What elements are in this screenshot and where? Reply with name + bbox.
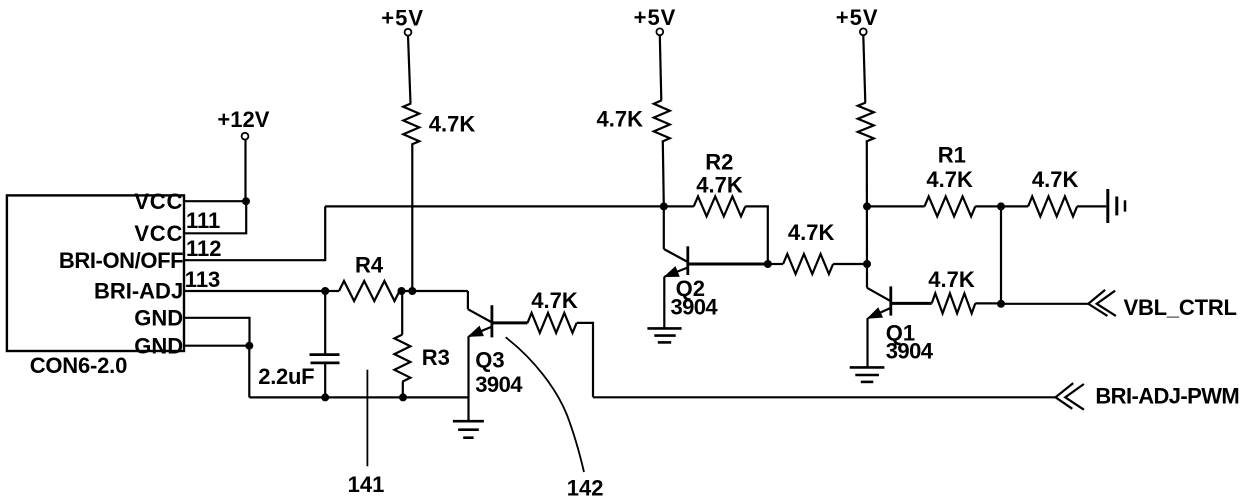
ground Q3 bar1	[453, 420, 484, 423]
wire +5V col1 upper	[408, 36, 411, 104]
wire GND drop	[248, 346, 250, 398]
resistor 4.7K Q1-base lead right	[975, 302, 1001, 304]
resistor 4.7K mid lead right	[833, 263, 867, 265]
node R1 right junction	[997, 202, 1005, 210]
resistor R1 lead right	[975, 205, 1001, 207]
resistor 4.7K mid lead left	[768, 263, 783, 265]
transistor Q2 emitter diagonal	[665, 268, 688, 277]
resistor 4.7K mid zigzag	[783, 254, 833, 274]
node +5V column1 junction	[408, 287, 416, 295]
wire VCC pin1 stub	[184, 200, 246, 202]
resistor 4.7K top-right lead left	[1001, 205, 1028, 207]
transistor Q2 base lead	[688, 263, 768, 266]
wire BRI-ADJ stub	[184, 290, 325, 292]
resistor 4.7K col3 zigzag	[858, 103, 874, 142]
transistor Q2 collector riser	[663, 206, 665, 249]
ground Q3 bar3	[463, 436, 473, 439]
ground Q1 bar3	[861, 381, 874, 384]
svg-text:4.7K: 4.7K	[531, 288, 578, 313]
wire Q3-base resistor to PWM corner	[577, 323, 593, 397]
capacitor 2.2uF top plate	[310, 353, 340, 356]
ground Q2 bar2	[654, 334, 675, 337]
resistor R2 lead left	[664, 205, 694, 207]
output arrow VBL_CTRL chevron1	[1088, 290, 1107, 316]
capacitor 2.2uF bottom plate	[311, 361, 340, 364]
resistor 4.7K col1 zigzag	[403, 103, 419, 144]
svg-text:4.7K: 4.7K	[926, 167, 973, 192]
svg-text:VCC: VCC	[134, 221, 183, 246]
resistor 4.7K Q1-base zigzag	[932, 293, 976, 313]
wire +5V col1 lower	[411, 145, 413, 291]
svg-text:R1: R1	[938, 143, 966, 168]
ground Q2 bar3	[658, 341, 671, 344]
svg-text:+12V: +12V	[217, 107, 269, 132]
transistor Q3 emitter diagonal	[469, 327, 492, 337]
svg-text:112: 112	[186, 236, 222, 261]
svg-text:4.7K: 4.7K	[928, 267, 975, 292]
wire +5V col2 lower	[663, 142, 664, 207]
wire Q1 emitter drop	[866, 318, 868, 367]
svg-text:BRI-ADJ: BRI-ADJ	[94, 279, 183, 304]
+5V terminal circle col3	[860, 28, 867, 35]
resistor 4.7K col2 zigzag	[654, 100, 670, 141]
resistor R1 lead left	[867, 205, 925, 207]
svg-text:3904: 3904	[475, 372, 523, 397]
svg-text:VCC: VCC	[134, 189, 183, 214]
output arrow VBL_CTRL chevron2	[1097, 291, 1116, 316]
transistor Q2 base bar	[686, 246, 689, 275]
ground Q1 bar1	[850, 366, 885, 369]
wire VCC pin2 stub	[184, 201, 246, 233]
svg-text:4.7K: 4.7K	[597, 107, 644, 132]
+5V terminal circle col2	[656, 28, 663, 35]
ground Q1 bar2	[855, 374, 879, 377]
wire +12V stem	[244, 140, 246, 202]
svg-text:VBL_CTRL: VBL_CTRL	[1124, 295, 1237, 320]
wire Q3 emitter drop	[467, 336, 469, 420]
transistor Q2 emitter arrow	[665, 267, 679, 277]
svg-text:3904: 3904	[886, 338, 934, 363]
wire GND pin5 stub	[184, 318, 250, 346]
svg-text:4.7K: 4.7K	[788, 220, 835, 245]
+5V terminal circle col1	[405, 29, 412, 36]
ground sideways bar3	[1124, 200, 1127, 211]
node R1 tap junction	[863, 202, 871, 210]
wire top rail to Q2 collector node	[325, 205, 664, 207]
transistor Q3 base lead	[492, 321, 528, 324]
resistor R3 top lead	[401, 291, 403, 335]
resistor R1 zigzag	[925, 196, 976, 216]
svg-text:142: 142	[567, 475, 604, 500]
node R4 right junction	[398, 287, 406, 295]
transistor Q1 emitter arrow	[868, 308, 882, 318]
node BRI-ADJ junction	[321, 287, 329, 295]
svg-text:4.7K: 4.7K	[1032, 167, 1079, 192]
capacitor 2.2uF top lead	[324, 291, 326, 355]
transistor Q3 collector riser	[467, 291, 469, 309]
svg-text:R3: R3	[422, 345, 450, 370]
wire +5V col2 upper	[660, 35, 662, 100]
svg-text:R2: R2	[705, 150, 733, 175]
wire VBL_CTRL line	[1001, 303, 1088, 305]
callout leader 141	[366, 370, 368, 467]
resistor R2 zigzag	[694, 196, 746, 216]
svg-text:Q3: Q3	[475, 348, 504, 373]
output arrow BRI-ADJ-PWM chevron1	[1056, 383, 1074, 409]
transistor Q1 base bar	[889, 286, 892, 315]
svg-text:+5V: +5V	[634, 5, 677, 30]
wire BRI-ON/OFF stub and riser	[184, 206, 325, 260]
svg-text:BRI-ADJ-PWM: BRI-ADJ-PWM	[1095, 384, 1239, 409]
transistor Q1 collector diagonal	[867, 288, 890, 301]
+12V terminal circle	[242, 133, 249, 140]
node capacitor/ground-rail junction	[321, 393, 329, 401]
wire GND pin6 stub	[184, 345, 250, 347]
svg-text:GND: GND	[134, 305, 183, 330]
node Q2 collector junction	[660, 202, 668, 210]
svg-text:+5V: +5V	[381, 5, 424, 30]
svg-text:R4: R4	[355, 252, 384, 277]
resistor R3 bottom lead	[402, 382, 404, 398]
callout leader curve 142	[506, 337, 584, 472]
ground sideways bar2	[1115, 197, 1118, 216]
connector CON6-2.0 body	[7, 195, 184, 351]
node VCC/+12V junction	[242, 197, 250, 205]
svg-text:4.7K: 4.7K	[429, 112, 476, 137]
transistor Q3 collector diagonal	[468, 309, 491, 322]
node VBL junction	[997, 300, 1005, 308]
capacitor 2.2uF bottom lead	[324, 363, 326, 398]
wire +5V col3 upper	[863, 35, 865, 102]
output arrow BRI-ADJ-PWM chevron2	[1065, 384, 1084, 410]
resistor 4.7K top-right lead right	[1077, 205, 1106, 207]
svg-text:+5V: +5V	[836, 5, 879, 30]
node Q1 base-drive junction	[863, 260, 871, 268]
svg-text:CON6-2.0: CON6-2.0	[30, 353, 127, 378]
transistor Q1 base lead	[891, 302, 932, 305]
svg-text:4.7K: 4.7K	[696, 173, 743, 198]
transistor Q3 base bar	[490, 305, 493, 337]
resistor R3 zigzag	[394, 335, 410, 382]
wire BRI-ADJ-PWM line	[593, 396, 1056, 398]
svg-text:2.2uF: 2.2uF	[258, 364, 314, 389]
node GND junction	[245, 342, 253, 350]
wire ground rail	[249, 396, 468, 398]
transistor Q2 collector diagonal	[664, 249, 687, 262]
svg-text:141: 141	[348, 472, 385, 497]
svg-text:BRI-ON/OFF: BRI-ON/OFF	[59, 248, 183, 273]
ground Q2 bar1	[647, 327, 681, 330]
wire R1-to-VBL vertical	[1000, 206, 1002, 303]
wire Q2 emitter drop	[663, 277, 665, 328]
resistor 4.7K top-right zigzag	[1028, 196, 1077, 216]
node Q2 base junction	[764, 260, 772, 268]
resistor 4.7K Q3-base zigzag	[528, 313, 577, 333]
ground sideways bar1	[1106, 189, 1109, 223]
svg-text:3904: 3904	[671, 295, 719, 320]
svg-text:GND: GND	[134, 333, 183, 358]
svg-text:111: 111	[186, 208, 220, 233]
resistor R4 lead left	[325, 290, 339, 292]
node R3/ground-rail junction	[399, 393, 407, 401]
transistor Q3 emitter arrow	[469, 327, 483, 337]
wire +5V col3 lower	[866, 142, 868, 288]
svg-text:113: 113	[185, 267, 221, 292]
transistor Q1 emitter diagonal	[868, 308, 891, 318]
resistor R4 zigzag	[339, 281, 400, 301]
wire R4 to +5V column	[402, 290, 468, 292]
ground Q3 bar2	[458, 428, 479, 431]
wire R2 right corner	[745, 206, 768, 264]
